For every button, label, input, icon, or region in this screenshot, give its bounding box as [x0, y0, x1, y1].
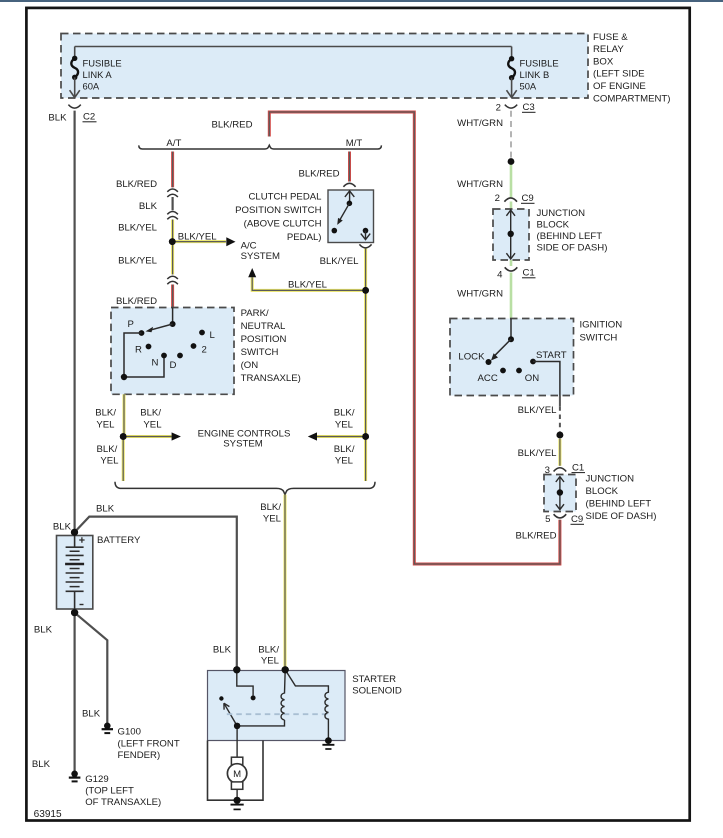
svg-text:(LEFT SIDE: (LEFT SIDE: [593, 69, 645, 80]
svg-text:BLOCK: BLOCK: [537, 220, 570, 231]
svg-text:(LEFT FRONT: (LEFT FRONT: [118, 738, 180, 749]
svg-text:BLK: BLK: [96, 504, 115, 515]
svg-text:TRANSAXLE): TRANSAXLE): [241, 373, 301, 384]
svg-text:(TOP LEFT: (TOP LEFT: [85, 786, 134, 797]
svg-text:BLK: BLK: [48, 113, 67, 124]
svg-text:2: 2: [496, 102, 501, 113]
svg-text:(ON: (ON: [241, 360, 259, 371]
svg-text:PEDAL): PEDAL): [287, 232, 322, 243]
svg-text:YEL: YEL: [261, 656, 280, 667]
svg-text:BLK/RED: BLK/RED: [116, 296, 157, 307]
svg-text:POSITION SWITCH: POSITION SWITCH: [235, 205, 321, 216]
svg-text:PARK/: PARK/: [241, 308, 269, 319]
svg-text:FUSIBLE: FUSIBLE: [520, 58, 559, 69]
svg-text:M/T: M/T: [346, 138, 363, 149]
svg-text:BLK/RED: BLK/RED: [116, 179, 157, 190]
svg-text:OF TRANSAXLE): OF TRANSAXLE): [85, 797, 161, 808]
svg-text:BLK/RED: BLK/RED: [211, 119, 252, 130]
svg-text:(BEHIND LEFT: (BEHIND LEFT: [586, 499, 652, 510]
svg-text:FUSE &: FUSE &: [593, 32, 628, 43]
svg-text:P: P: [128, 319, 134, 330]
svg-text:SWITCH: SWITCH: [241, 347, 279, 358]
svg-text:BLK/: BLK/: [258, 645, 279, 656]
svg-text:JUNCTION: JUNCTION: [586, 474, 635, 485]
svg-text:LINK B: LINK B: [520, 69, 550, 80]
svg-text:M: M: [233, 769, 241, 780]
svg-text:N: N: [152, 357, 159, 368]
svg-text:G100: G100: [118, 727, 141, 738]
svg-text:BLK/YEL: BLK/YEL: [518, 405, 558, 416]
svg-text:YEL: YEL: [335, 419, 354, 430]
svg-text:RELAY: RELAY: [593, 44, 624, 55]
svg-text:COMPARTMENT): COMPARTMENT): [593, 93, 670, 104]
svg-text:(BEHIND LEFT: (BEHIND LEFT: [537, 231, 603, 242]
svg-text:BLK/: BLK/: [95, 407, 116, 418]
svg-text:FUSIBLE: FUSIBLE: [83, 58, 122, 69]
svg-text:JUNCTION: JUNCTION: [537, 208, 586, 219]
svg-text:C1: C1: [523, 268, 535, 279]
svg-text:BLK/YEL: BLK/YEL: [288, 279, 328, 290]
svg-text:BLK/RED: BLK/RED: [515, 530, 556, 541]
svg-text:BLK/YEL: BLK/YEL: [320, 256, 360, 267]
svg-text:2: 2: [495, 193, 500, 204]
svg-text:A/T: A/T: [166, 138, 181, 149]
svg-text:BLOCK: BLOCK: [586, 486, 619, 497]
svg-text:POSITION: POSITION: [241, 334, 287, 345]
svg-text:BATTERY: BATTERY: [97, 535, 141, 546]
svg-text:IGNITION: IGNITION: [580, 320, 623, 331]
svg-text:OF ENGINE: OF ENGINE: [593, 81, 646, 92]
svg-text:50A: 50A: [520, 80, 537, 91]
svg-text:BLK/: BLK/: [140, 407, 161, 418]
svg-text:C9: C9: [522, 193, 534, 204]
svg-text:START: START: [536, 350, 567, 361]
svg-text:YEL: YEL: [96, 419, 115, 430]
svg-text:(ABOVE CLUTCH: (ABOVE CLUTCH: [244, 219, 322, 230]
svg-text:BLK/RED: BLK/RED: [298, 169, 339, 180]
svg-text:STARTER: STARTER: [352, 674, 396, 685]
svg-text:BLK: BLK: [34, 625, 53, 636]
svg-text:BLK: BLK: [82, 709, 101, 720]
svg-text:60A: 60A: [83, 80, 100, 91]
svg-text:R: R: [135, 345, 142, 356]
svg-text:SYSTEM: SYSTEM: [241, 251, 280, 262]
svg-text:BLK/YEL: BLK/YEL: [518, 448, 558, 459]
svg-text:FENDER): FENDER): [118, 750, 161, 761]
svg-text:2: 2: [202, 344, 207, 355]
svg-text:4: 4: [497, 270, 503, 281]
svg-text:YEL: YEL: [335, 456, 354, 467]
svg-text:YEL: YEL: [263, 514, 282, 525]
svg-text:SIDE OF DASH): SIDE OF DASH): [586, 511, 657, 522]
svg-text:BLK/YEL: BLK/YEL: [118, 222, 158, 233]
svg-text:BLK/YEL: BLK/YEL: [118, 256, 158, 267]
svg-text:YEL: YEL: [143, 419, 162, 430]
svg-text:G129: G129: [85, 774, 108, 785]
svg-text:LINK A: LINK A: [83, 69, 113, 80]
svg-text:WHT/GRN: WHT/GRN: [457, 118, 503, 129]
svg-text:SOLENOID: SOLENOID: [352, 686, 402, 697]
svg-text:D: D: [170, 360, 177, 371]
svg-text:YEL: YEL: [100, 456, 119, 467]
svg-text:C9: C9: [571, 514, 583, 525]
svg-text:BLK: BLK: [213, 645, 232, 656]
svg-text:L: L: [210, 330, 216, 341]
svg-text:BOX: BOX: [593, 56, 614, 67]
svg-text:BLK: BLK: [139, 201, 158, 212]
svg-text:BLK: BLK: [53, 522, 72, 533]
svg-text:5: 5: [545, 514, 550, 525]
svg-text:SYSTEM: SYSTEM: [223, 439, 262, 450]
svg-text:C2: C2: [83, 112, 95, 123]
svg-text:WHT/GRN: WHT/GRN: [457, 179, 503, 190]
svg-text:ON: ON: [525, 373, 539, 384]
svg-text:CLUTCH PEDAL: CLUTCH PEDAL: [248, 192, 322, 203]
svg-text:BLK/: BLK/: [334, 444, 355, 455]
svg-text:WHT/GRN: WHT/GRN: [457, 289, 503, 300]
svg-text:NEUTRAL: NEUTRAL: [241, 321, 286, 332]
svg-text:SIDE OF DASH): SIDE OF DASH): [537, 243, 608, 254]
svg-text:BLK/: BLK/: [334, 407, 355, 418]
svg-text:C1: C1: [572, 462, 584, 473]
svg-text:ACC: ACC: [478, 373, 498, 384]
svg-text:BLK: BLK: [32, 759, 51, 770]
svg-text:SWITCH: SWITCH: [580, 333, 618, 344]
svg-text:BLK/: BLK/: [260, 502, 281, 513]
svg-text:63915: 63915: [34, 809, 62, 820]
svg-text:LOCK: LOCK: [458, 352, 485, 363]
svg-text:BLK/: BLK/: [96, 444, 117, 455]
svg-text:C3: C3: [523, 102, 535, 113]
svg-text:BLK/YEL: BLK/YEL: [178, 232, 218, 243]
